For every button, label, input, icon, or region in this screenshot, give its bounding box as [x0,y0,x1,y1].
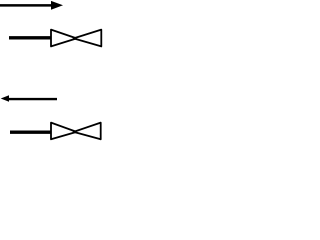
arrowhead of A1 [51,1,63,10]
wire: arrow A2 shaft [8,98,57,100]
valve V1 (bowtie symbol) [51,30,101,47]
valve V1 right triangle [74,30,102,47]
flow arrow A2 (pointing left) [1,95,57,102]
flow arrow A1 (pointing right) [0,1,63,10]
wire: pipe line P2 [10,130,52,133]
valve V2 right triangle [74,123,101,140]
arrowhead of A2 [1,95,9,102]
wire: arrow A1 shaft [0,4,52,7]
valve V1 left triangle [51,30,77,47]
valve V2 left triangle [51,123,77,140]
wire: pipe line P1 [9,36,52,39]
valve V2 (bowtie symbol) [51,123,101,140]
